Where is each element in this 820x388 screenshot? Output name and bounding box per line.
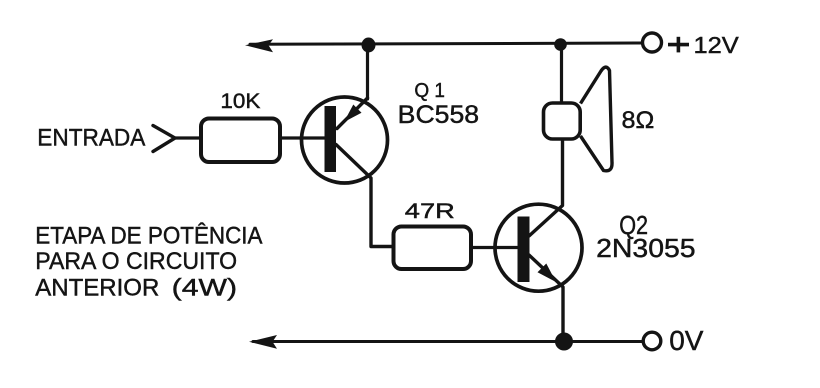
svg-text:2N3055: 2N3055 — [596, 235, 696, 263]
svg-text:10K: 10K — [220, 89, 261, 113]
svg-text:12V: 12V — [694, 32, 740, 58]
svg-text:8Ω: 8Ω — [622, 107, 655, 134]
svg-text:BC558: BC558 — [398, 101, 479, 129]
svg-text:ANTERIOR: ANTERIOR — [35, 275, 159, 302]
svg-text:PARA O CIRCUITO: PARA O CIRCUITO — [35, 248, 237, 275]
svg-text:Q 1: Q 1 — [414, 79, 445, 102]
svg-text:(4W): (4W) — [172, 275, 237, 302]
svg-text:ENTRADA: ENTRADA — [37, 125, 145, 152]
svg-text:0V: 0V — [669, 325, 704, 356]
svg-text:ETAPA DE POTÊNCIA: ETAPA DE POTÊNCIA — [35, 223, 262, 250]
svg-text:47R: 47R — [405, 199, 455, 223]
